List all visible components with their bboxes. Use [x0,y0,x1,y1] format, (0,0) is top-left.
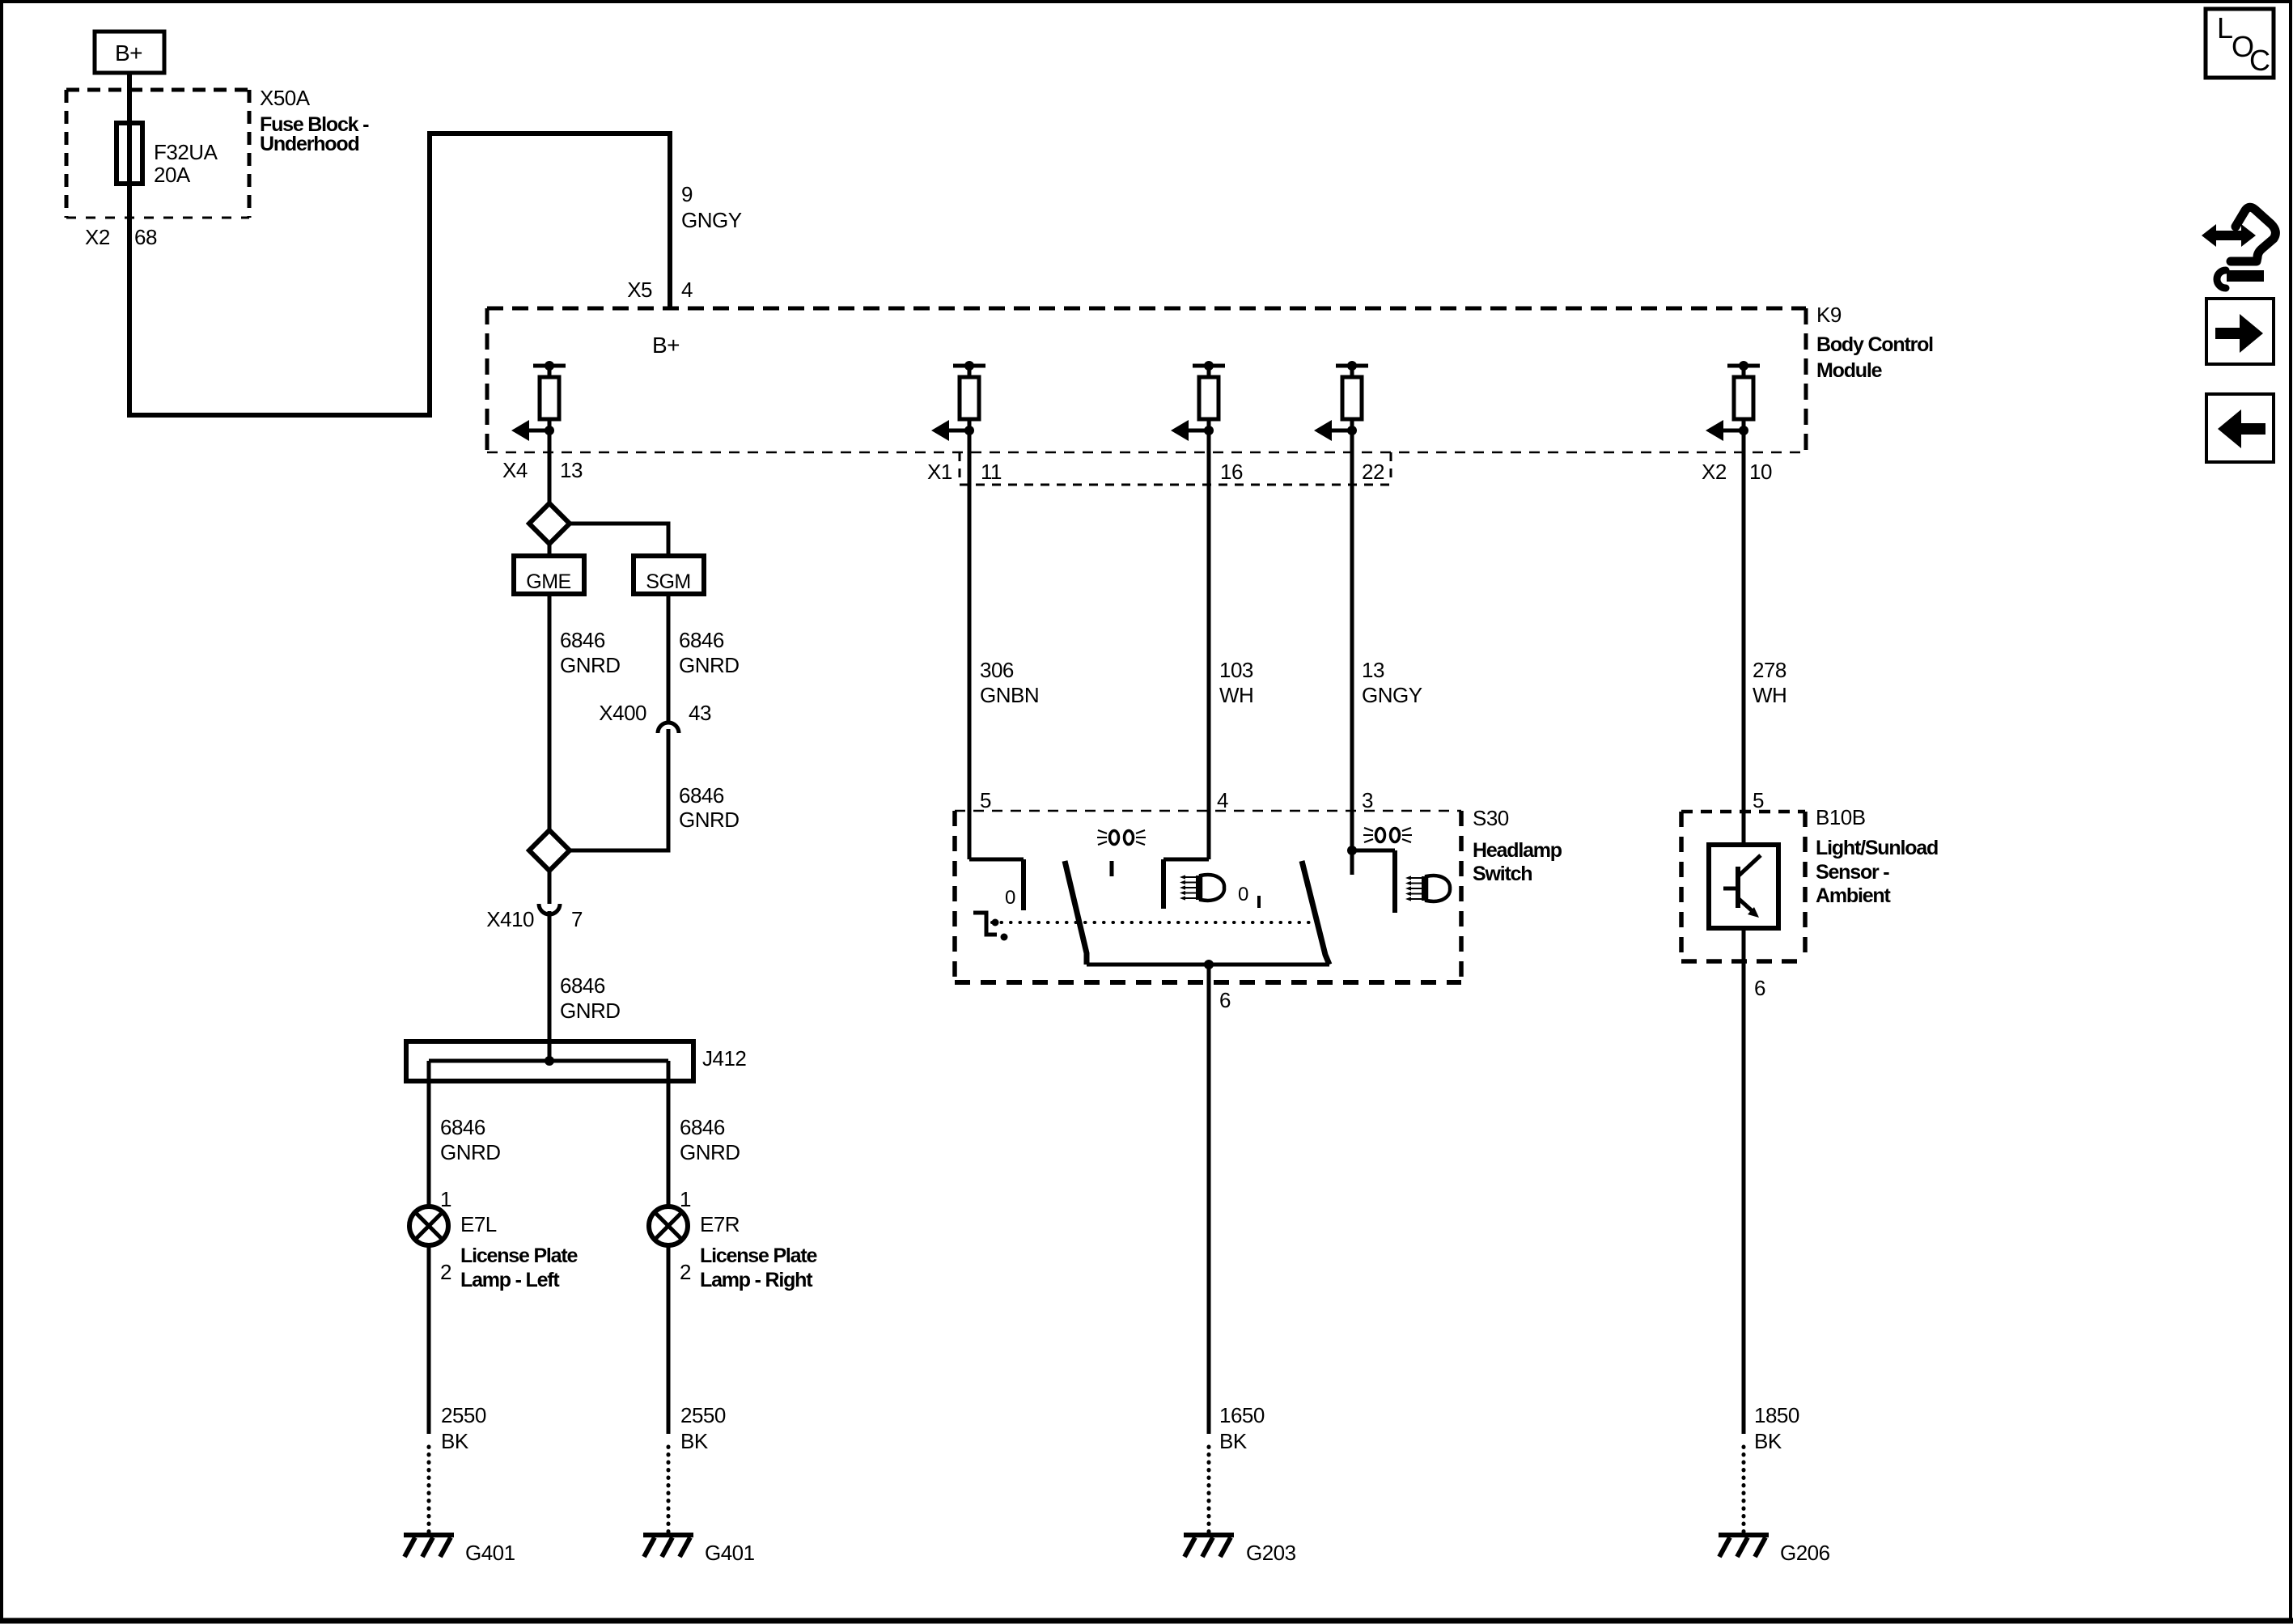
svg-text:306: 306 [980,658,1014,682]
svg-text:SGM: SGM [646,570,690,593]
svg-text:4: 4 [1217,788,1228,812]
wire 13 GNGY (pin 22 to switch pin 3) [1350,430,1354,875]
svg-text:X5: X5 [627,278,652,302]
svg-text:GNRD: GNRD [560,999,621,1023]
svg-text:6846: 6846 [679,783,724,808]
svg-text:2550: 2550 [680,1403,726,1427]
svg-text:L: L [2217,11,2233,45]
power symbol B+ [95,32,164,73]
BCM internal driver 4 (resistor + output arrow) [1336,364,1368,368]
BCM internal driver 1 (resistor + output arrow) [533,364,566,368]
svg-text:X50A: X50A [260,86,311,110]
ground G203 [1184,1533,1234,1537]
svg-text:9: 9 [681,182,693,206]
ground G401 (left) [404,1533,454,1537]
svg-text:B10B: B10B [1816,805,1866,829]
svg-text:B+: B+ [115,40,142,66]
svg-text:1: 1 [440,1187,451,1211]
module K9 Body Control Module dashed box [487,307,1806,311]
svg-text:Light/Sunload: Light/Sunload [1816,837,1938,859]
BCM internal driver 2 (resistor + output arrow) [953,364,985,368]
svg-text:J412: J412 [702,1046,746,1071]
svg-text:Lamp - Right: Lamp - Right [700,1269,813,1291]
svg-text:103: 103 [1219,658,1253,682]
fuse block X50A dashed outline [66,88,249,92]
svg-text:License Plate: License Plate [700,1245,817,1267]
svg-text:GNRD: GNRD [440,1140,501,1164]
svg-text:0: 0 [1005,887,1015,909]
connector SGM [634,556,704,594]
splice diamond 2 [529,830,570,871]
svg-text:6846: 6846 [680,1115,725,1139]
svg-text:GNGY: GNGY [1362,683,1422,707]
headlamp icon 1 [1182,876,1196,878]
svg-text:GME: GME [526,570,570,593]
svg-text:BK: BK [441,1429,469,1453]
wire 6846 GNRD (right lamp) [667,1061,671,1206]
sensor B10B dashed box [1681,810,1805,814]
svg-text:7: 7 [571,907,583,931]
wire 2550 BK (right lamp to ground) [667,1245,671,1434]
svg-text:278: 278 [1753,658,1787,682]
wire 103 WH (pin 16 to switch pin 4) [1207,430,1211,859]
forward arrow legend box [2206,299,2274,364]
switch OFF detent symbol [973,913,997,935]
wire 306 GNBN (pin 11 to switch pin 5) [968,430,972,859]
lamp E7R License Plate Lamp - Right [649,1206,688,1245]
wire diamond2 to X410 [548,871,552,904]
in-line connector X400 pin 43 [658,723,679,733]
wire 6846 GNRD to J412 [548,911,552,1061]
wire X4-13 down to splice [548,430,552,503]
svg-text:10: 10 [1749,460,1772,484]
svg-text:GNRD: GNRD [679,653,740,677]
LOC legend box [2206,9,2274,78]
wire 6846 GNRD (SGM branch) [667,594,671,721]
svg-text:S30: S30 [1473,806,1509,830]
BCM internal driver 3 (resistor + output arrow) [1193,364,1225,368]
svg-text:11: 11 [981,460,1002,484]
BCM internal driver 5 (resistor + output arrow) [1727,364,1760,368]
svg-text:68: 68 [134,225,157,249]
wire 6846 GNRD below X400 [569,729,668,850]
svg-text:6: 6 [1219,988,1231,1012]
backward arrow legend box [2206,394,2274,462]
svg-text:F32UA: F32UA [154,140,218,164]
lamp E7L License Plate Lamp - Left [409,1206,448,1245]
svg-text:X410: X410 [486,907,534,931]
svg-text:Switch: Switch [1473,863,1532,885]
svg-text:4: 4 [681,278,693,302]
svg-text:BK: BK [1219,1429,1248,1453]
switch blade 2 [1302,861,1329,965]
svg-text:Headlamp: Headlamp [1473,839,1562,862]
svg-text:E7L: E7L [460,1212,497,1236]
svg-text:GNBN: GNBN [980,683,1039,707]
wire splice to SGM [569,524,668,556]
park lamp icon [1110,831,1119,845]
switch S30 Headlamp Switch dashed box [955,810,1461,812]
in-line connector X410 pin 7 [539,904,560,914]
svg-text:5: 5 [1753,788,1764,812]
svg-text:16: 16 [1220,460,1243,484]
svg-text:G401: G401 [465,1541,515,1565]
svg-text:X400: X400 [599,701,646,725]
svg-text:Ambient: Ambient [1816,884,1891,907]
svg-text:6846: 6846 [679,628,724,652]
svg-text:6: 6 [1754,976,1765,1000]
svg-text:2: 2 [680,1260,691,1284]
svg-text:6846: 6846 [440,1115,485,1139]
splice diamond 1 [529,503,570,544]
svg-text:1850: 1850 [1754,1403,1799,1427]
svg-text:2550: 2550 [441,1403,486,1427]
svg-text:B+: B+ [652,333,680,358]
svg-text:C: C [2249,44,2270,77]
switch blade 1 [1065,861,1087,965]
svg-text:6846: 6846 [560,973,605,998]
switch position dotted line [992,921,1309,924]
svg-text:5: 5 [980,788,991,812]
svg-text:WH: WH [1219,683,1253,707]
switch contact pin 3 junction [1347,846,1357,855]
svg-text:3: 3 [1362,788,1373,812]
wire B+ to fuse and feed to X5 [129,73,670,415]
wire 278 WH (pin 10 to sensor pin 5) [1742,430,1746,845]
reroute/connector-view icon [2202,224,2256,247]
svg-text:X2: X2 [85,225,110,249]
svg-text:X1: X1 [927,460,952,484]
connector GME [514,556,584,594]
svg-text:K9: K9 [1816,303,1842,327]
wire 2550 BK (left lamp to ground) [427,1245,431,1434]
svg-text:22: 22 [1362,460,1384,484]
svg-text:6846: 6846 [560,628,605,652]
svg-text:License Plate: License Plate [460,1245,578,1267]
svg-text:43: 43 [689,701,711,725]
svg-text:G203: G203 [1246,1541,1296,1565]
wire 1850 BK (sensor pin 6 to ground) [1742,928,1746,1434]
connector X1 dashed sub-outline [959,452,961,485]
svg-text:X4: X4 [502,458,528,482]
svg-text:GNRD: GNRD [679,808,740,832]
svg-text:Lamp - Left: Lamp - Left [460,1269,560,1291]
svg-text:Module: Module [1816,359,1883,382]
svg-text:G206: G206 [1780,1541,1830,1565]
svg-text:BK: BK [1754,1429,1782,1453]
sensor inner box with phototransistor [1709,845,1778,928]
svg-text:GNRD: GNRD [680,1140,740,1164]
ground G206 [1719,1533,1769,1537]
ground G401 (right) [643,1533,693,1537]
wire splice to GME [548,544,552,556]
svg-text:E7R: E7R [700,1212,740,1236]
switch common bus [1087,963,1329,967]
fuse F32UA 20A [117,123,142,184]
park lamp icon 2 [1376,829,1385,842]
svg-text:Body Control: Body Control [1816,333,1933,356]
svg-text:Sensor -: Sensor - [1816,861,1889,884]
svg-text:13: 13 [560,458,583,482]
svg-text:WH: WH [1753,683,1787,707]
svg-text:Underhood: Underhood [260,133,359,155]
svg-text:1650: 1650 [1219,1403,1265,1427]
svg-text:1: 1 [680,1187,691,1211]
headlamp icon 2 [1408,877,1422,879]
svg-text:GNRD: GNRD [560,653,621,677]
wire 6846 GNRD (left lamp) [427,1061,431,1206]
svg-text:X2: X2 [1702,460,1727,484]
splice pack J412 [406,1041,693,1081]
svg-text:2: 2 [440,1260,451,1284]
svg-text:G401: G401 [705,1541,755,1565]
svg-text:20A: 20A [154,163,191,187]
svg-text:BK: BK [680,1429,709,1453]
wire 1650 BK (switch pin 6 to ground) [1207,965,1211,1434]
svg-text:13: 13 [1362,658,1384,682]
svg-text:0: 0 [1238,884,1248,905]
svg-text:GNGY: GNGY [681,208,742,232]
wire 6846 GNRD (GME branch) [548,594,552,830]
